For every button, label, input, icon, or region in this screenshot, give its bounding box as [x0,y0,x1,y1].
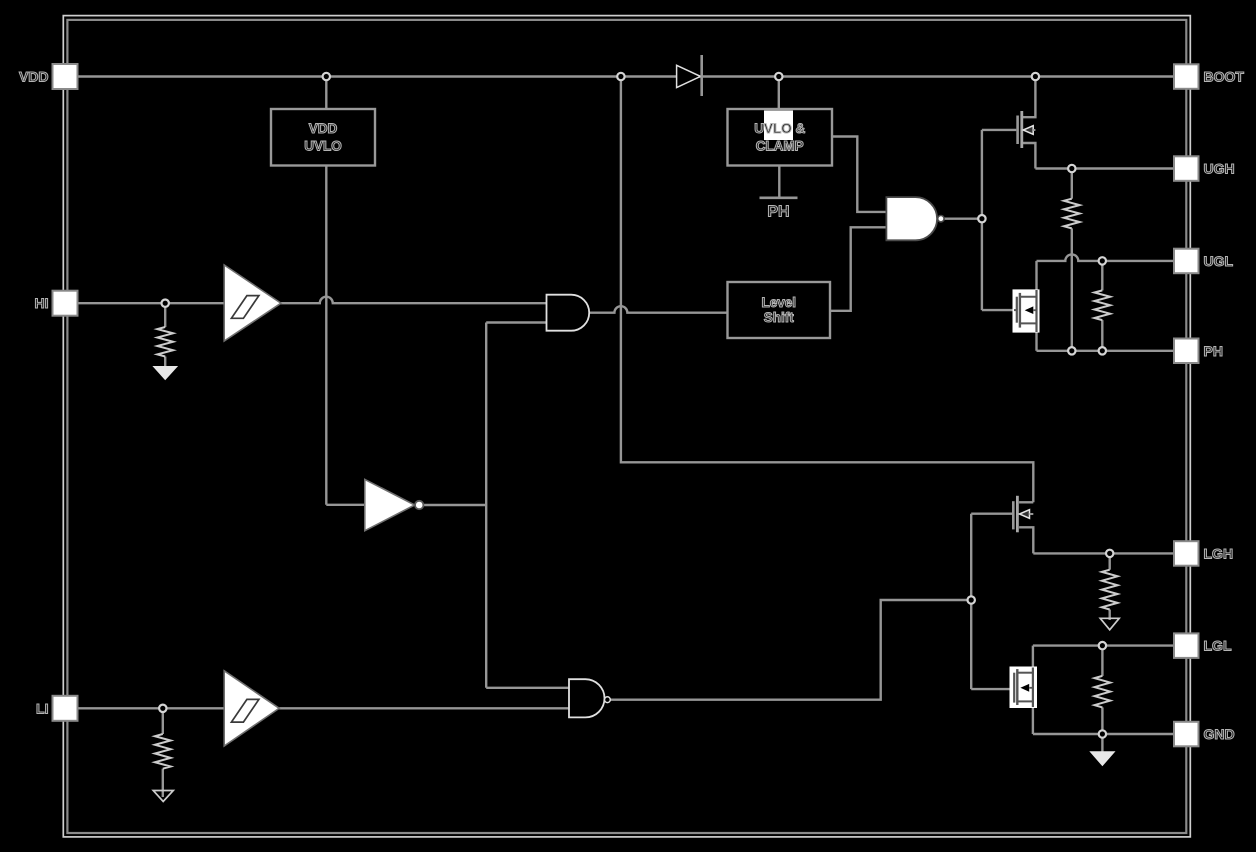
svg-text:VDD: VDD [309,121,338,136]
svg-text:LGH: LGH [1204,546,1234,562]
svg-text:UVLO &: UVLO & [754,121,805,136]
svg-text:LGL: LGL [1204,638,1232,654]
svg-text:LI: LI [36,700,48,716]
svg-text:GND: GND [1204,726,1235,742]
svg-text:UVLO: UVLO [304,138,342,153]
svg-text:BOOT: BOOT [1204,69,1245,85]
svg-text:UGL: UGL [1204,253,1234,269]
svg-text:PH: PH [1204,343,1223,359]
svg-text:CLAMP: CLAMP [756,138,804,153]
svg-text:Level: Level [762,295,797,310]
svg-text:UGH: UGH [1204,161,1235,177]
svg-text:VDD: VDD [19,69,49,85]
svg-text:Shift: Shift [764,310,794,325]
svg-text:HI: HI [35,295,49,311]
svg-text:PH: PH [767,204,789,221]
